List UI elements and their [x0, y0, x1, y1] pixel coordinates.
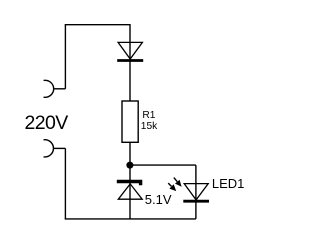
svg-text:LED1: LED1: [212, 176, 245, 191]
junction node dot: [126, 162, 133, 169]
wire: top arc terminal to left rail: [54, 88, 66, 90]
diode D1 cathode bar: [117, 59, 143, 62]
wire: bottom horizontal: [65, 218, 196, 220]
resistor R1 body: [122, 101, 138, 142]
wire: resistor to zener / bottom vertical: [129, 142, 131, 219]
LED1 arrow lower: [168, 183, 176, 191]
LED1 cathode bar: [183, 200, 209, 203]
wire: diode branch vertical (top wire through diode to resistor): [129, 24, 131, 101]
diode D1 triangle: [118, 42, 142, 59]
wire: LED branch vertical: [195, 165, 197, 219]
zener diode ZD cathode bar with hook: [117, 182, 141, 186]
svg-text:220V: 220V: [25, 112, 69, 134]
svg-text:15k: 15k: [141, 121, 158, 132]
zener diode ZD triangle: [118, 184, 142, 199]
terminal arc top (220V live): [44, 80, 54, 97]
LED1 triangle: [184, 184, 208, 200]
wire: bottom arc terminal to left rail: [54, 147, 66, 149]
wire: top horizontal: [65, 24, 130, 26]
svg-text:R1: R1: [142, 110, 155, 121]
wire: left rail bottom vertical: [64, 148, 66, 219]
wire: junction to LED horizontal: [130, 164, 196, 166]
svg-text:5.1V: 5.1V: [145, 192, 172, 207]
LED1 arrow upper: [174, 178, 182, 187]
wire: left rail top vertical: [64, 25, 66, 89]
terminal arc bottom (220V neutral): [44, 140, 54, 157]
